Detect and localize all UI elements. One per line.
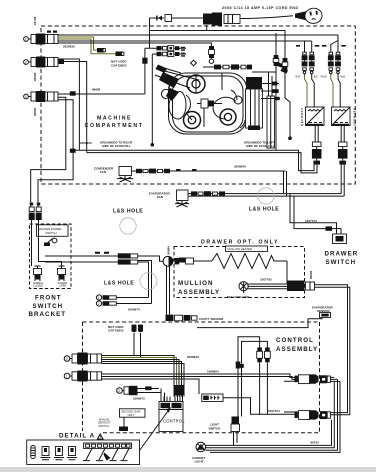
inline connector right leg 1 <box>257 348 263 415</box>
svg-text:CAVITY SENSOR: CAVITY SENSOR <box>199 317 224 321</box>
svg-text:SWITCH: SWITCH <box>209 426 221 430</box>
svg-text:SWITCH: SWITCH <box>326 259 357 266</box>
wire to lower loop 2 <box>138 261 152 304</box>
svg-text:LIGHT: LIGHT <box>195 460 204 464</box>
wire bundle B1 w5 <box>102 364 185 397</box>
svg-text:2058920: 2058920 <box>80 141 92 145</box>
wire heater1 leads down <box>315 126 318 143</box>
mullion feed connector A <box>163 256 179 266</box>
connector lower loop b <box>96 301 116 306</box>
fuse column F3 <box>321 52 334 78</box>
wire bundle B2 w3 thermostat feed <box>102 379 200 394</box>
svg-text:SECOND YEAR: SECOND YEAR <box>122 409 141 413</box>
wire J1 to fuse col2 <box>58 40 312 42</box>
svg-text:SWITCH: SWITCH <box>46 231 57 235</box>
cord wire <box>240 16 293 19</box>
svg-text:W+W: W+W <box>321 76 328 79</box>
plunger switch normal open <box>58 266 69 288</box>
drawer switch S1 <box>333 232 347 244</box>
svg-text:ASSEMBLY: ASSEMBLY <box>178 289 220 296</box>
wire F3 olive drop to heater 2 <box>331 75 333 108</box>
svg-text:66682: 66682 <box>92 88 101 92</box>
svg-text:SWITCH: SWITCH <box>33 303 64 310</box>
svg-text:2: 2 <box>118 389 120 393</box>
svg-text:FAN: FAN <box>100 170 106 174</box>
svg-text:L&S HOLE: L&S HOLE <box>104 281 134 287</box>
svg-text:BRACKET: BRACKET <box>29 311 67 318</box>
svg-text:2008 C/14 18 AMP 5-15P CORD EN: 2008 C/14 18 AMP 5-15P CORD END <box>222 6 298 10</box>
detail switch fig 3 <box>67 447 77 460</box>
wire to lower loop 1 <box>138 262 149 298</box>
svg-text:1: 1 <box>98 296 100 300</box>
detail switch fig 1 <box>41 447 51 460</box>
wire bundle B2 w1 <box>102 374 295 377</box>
svg-text:CAP ENDS: CAP ENDS <box>111 64 126 68</box>
wire bundle B2 w2 <box>102 377 295 382</box>
wire mullion lead left <box>172 258 194 265</box>
wire bundle B1 w4 olive <box>102 362 182 397</box>
not used cap end 2 <box>116 52 125 57</box>
svg-text:2058949: 2058949 <box>187 355 199 359</box>
detail A box <box>27 440 140 465</box>
svg-text:L&S HOLE: L&S HOLE <box>113 209 143 215</box>
wire overload col A <box>252 33 279 150</box>
svg-text:FAN: FAN <box>157 195 163 199</box>
wire upper conn out <box>330 377 340 381</box>
wire J1 olive 1 <box>58 37 97 50</box>
svg-text:L&S HOLE: L&S HOLE <box>249 207 279 213</box>
svg-text:3: 3 <box>25 95 27 99</box>
L&S hole left <box>113 209 143 235</box>
wire F1 top tap <box>304 41 306 52</box>
heater1 connector <box>312 142 322 165</box>
connector J1 <box>24 34 58 45</box>
plunger switch normal closed <box>33 266 44 288</box>
top tick marks <box>296 45 346 47</box>
wire J3 to master switch 2 <box>38 100 73 207</box>
compressor run capacitor <box>246 72 273 130</box>
svg-text:66723: 66723 <box>311 441 320 445</box>
label manual defrost switch <box>98 417 111 427</box>
compressor mounting clip top right <box>276 62 289 74</box>
fuse column F2 <box>309 52 318 78</box>
compressor suction tubes <box>155 65 199 102</box>
heater2 connector <box>338 142 348 165</box>
conn1 top ticks <box>47 31 57 33</box>
wire mullion out 1 <box>315 285 348 413</box>
not used cap ends lower <box>108 325 143 333</box>
detail terminal strip <box>84 443 132 448</box>
light switch S2 <box>231 417 240 446</box>
wire J2 drop 1 <box>58 59 79 150</box>
control pin header <box>174 385 185 402</box>
svg-text:2058940: 2058940 <box>234 165 246 169</box>
connector L1 <box>64 353 101 365</box>
wire L3 into board <box>159 389 165 402</box>
compressor body <box>169 73 248 134</box>
jumper loop inner <box>242 341 268 363</box>
svg-text:1007704: 1007704 <box>305 219 317 223</box>
wire harness row A <box>145 46 186 51</box>
wire condenser fan run <box>132 169 286 174</box>
svg-text:CLOSED: CLOSED <box>33 285 43 288</box>
svg-text:CAP ENDS: CAP ENDS <box>108 328 123 332</box>
mullion heater element R1 <box>194 254 288 269</box>
inline fuse on stub <box>209 46 215 63</box>
wire J1 olive 2 <box>58 39 116 54</box>
svg-text:FRONT: FRONT <box>35 295 62 302</box>
wire bundle B1 w1 <box>102 356 175 397</box>
defrost heater box 2 <box>332 107 351 126</box>
svg-text:B+R: B+R <box>296 76 301 79</box>
wire drawer switch feed 1 <box>290 194 337 234</box>
svg-text:1: 1 <box>25 38 27 42</box>
compressor oval pocket <box>169 92 186 119</box>
wire F1 olive drop to heater 1 <box>305 75 308 108</box>
thermostat cold control <box>202 394 223 402</box>
wire harness row B <box>152 51 186 56</box>
wire thermostat out <box>223 398 295 415</box>
svg-text:SIDE OF FOAM FILL: SIDE OF FOAM FILL <box>246 144 275 148</box>
svg-text:63739: 63739 <box>33 16 37 25</box>
svg-text:2: 2 <box>25 61 27 65</box>
jumper loop outer <box>238 337 260 364</box>
wire bundle B1 w3 <box>102 360 180 397</box>
svg-text:66684: 66684 <box>33 107 37 116</box>
connector L2 <box>64 371 101 382</box>
connector J3 <box>24 91 58 102</box>
fuse column F4 <box>335 52 345 78</box>
svg-text:ASSEMBLY: ASSEMBLY <box>276 346 318 353</box>
mullion assembly dashed box <box>174 247 305 298</box>
svg-text:1006973: 1006973 <box>133 396 145 400</box>
detail pointer line <box>130 408 171 465</box>
master power switch connectors <box>29 203 42 220</box>
fuse column F1 <box>296 52 308 78</box>
svg-text:CONTROL: CONTROL <box>163 419 185 424</box>
wire evap fan run 2 <box>188 195 344 197</box>
svg-text:COMPARTMENT: COMPARTMENT <box>85 123 143 129</box>
wire rail lower to heater1 <box>87 153 317 173</box>
wire bundle B1 w2 olive <box>102 358 177 397</box>
evaporator sensor RT1 <box>320 313 331 318</box>
wire evap sensor <box>197 318 322 328</box>
not used cap end 1 <box>97 48 106 53</box>
svg-text:MULLION LENS: MULLION LENS <box>227 295 250 299</box>
wire lamp line C <box>205 379 337 450</box>
svg-text:DEFROST: DEFROST <box>353 108 357 126</box>
wire heater2 leads to fan rail <box>341 165 344 197</box>
connector middle upper <box>118 253 138 264</box>
wire light switch leg <box>238 368 242 417</box>
wire lower loop 1 <box>117 297 149 299</box>
control board U1 <box>159 397 185 432</box>
jumper blobs left legs <box>236 362 244 369</box>
wire mullion out 2 <box>315 287 350 415</box>
evaporator fan motor M2 <box>175 190 189 207</box>
strain relief <box>203 13 240 31</box>
svg-text:CONTROL: CONTROL <box>276 337 314 344</box>
wire mullion right lead down <box>286 261 288 284</box>
bottom grey strip <box>0 467 376 472</box>
svg-text:SWITCH: SWITCH <box>99 424 109 428</box>
wire J1 to run cap stub <box>58 43 211 46</box>
connector L3 <box>117 386 161 395</box>
connector lower loop a <box>96 295 116 300</box>
wire to mullion connector <box>138 256 163 261</box>
wire bracket upper pair 1 <box>45 255 118 257</box>
wire condenser bend down <box>284 171 287 196</box>
wire heater2 leads down <box>341 126 344 143</box>
svg-text:MACHINE: MACHINE <box>97 116 131 122</box>
svg-text:B+B: B+B <box>340 76 345 79</box>
svg-text:66684: 66684 <box>167 246 171 255</box>
master power switch label box <box>37 225 69 237</box>
detail switch fig 2 <box>54 447 64 460</box>
wire F2 drop to heater 1 <box>312 75 315 108</box>
manual defrost switch <box>119 427 128 432</box>
wire lower loop 2 <box>117 303 152 305</box>
cavity sensor connector <box>166 315 198 321</box>
wire rail to heater1 <box>73 150 314 170</box>
mullion heater label box <box>226 246 268 251</box>
svg-text:2058974: 2058974 <box>128 308 140 312</box>
plug face 5-15P <box>304 7 323 24</box>
wire F3 top fork <box>331 41 338 53</box>
wire cord to strain relief <box>172 17 204 19</box>
wire J3 to master switch 1 <box>31 97 66 207</box>
detail capsule <box>31 446 35 459</box>
wire evap fan run 1 <box>188 191 341 196</box>
compressor small circle <box>234 96 242 104</box>
svg-text:66684: 66684 <box>33 72 37 81</box>
compressor ground wire <box>151 54 155 147</box>
machine compartment dashed border <box>41 26 355 184</box>
control assembly dashed box <box>83 322 320 433</box>
svg-text:1007754: 1007754 <box>268 409 280 413</box>
svg-text:DRAWER: DRAWER <box>325 251 359 258</box>
node diamond <box>191 60 197 66</box>
compressor bottom-left mount circle <box>184 112 201 129</box>
svg-text:ONLY: ONLY <box>128 413 135 417</box>
svg-text:DRAWER OPT. ONLY: DRAWER OPT. ONLY <box>201 240 278 246</box>
wire protector col B to ground <box>282 42 292 140</box>
mullion output connector <box>287 281 315 292</box>
svg-text:MULLION: MULLION <box>178 280 214 287</box>
wire F4 drop to heater 2 <box>338 75 340 108</box>
compressor side taps <box>261 82 280 101</box>
svg-text:3: 3 <box>66 357 68 361</box>
wire lamp line A <box>206 420 332 446</box>
detail levers <box>83 448 129 460</box>
wire to defrost switch <box>123 417 125 426</box>
label ticks upper pair <box>95 252 109 254</box>
compressor center valve <box>197 99 222 108</box>
L&S hole right <box>249 188 279 213</box>
svg-text:SIDE OF FOAM PILL: SIDE OF FOAM PILL <box>102 144 131 148</box>
cabinet light lamp <box>196 442 206 452</box>
wire cap ends drop <box>134 333 141 358</box>
plug wedge <box>295 11 306 20</box>
svg-text:66684: 66684 <box>309 270 313 279</box>
svg-text:OPEN: OPEN <box>60 285 67 288</box>
defrost heater box 1 <box>306 107 325 126</box>
grommet <box>239 282 248 291</box>
wire drawer switch feed 2 <box>294 196 341 234</box>
wire J3 compressor feed <box>58 48 148 96</box>
wire J2 drop 2 <box>64 62 87 153</box>
svg-text:1007793: 1007793 <box>260 278 272 282</box>
wire lamp line B <box>206 381 335 447</box>
switch icon <box>44 238 57 246</box>
svg-text:DETAIL A: DETAIL A <box>59 433 95 440</box>
svg-text:2020832: 2020832 <box>63 45 75 49</box>
wire cavity sensor feed <box>167 266 170 315</box>
wire cord drop <box>150 18 156 48</box>
wire F4 top <box>337 35 339 52</box>
L&S hole middle <box>104 273 157 290</box>
svg-text:1: 1 <box>66 375 68 379</box>
wire cord neutral rail <box>150 31 286 43</box>
compressor right mount circle <box>220 109 236 125</box>
svg-text:DEFROST: DEFROST <box>300 108 304 126</box>
compressor top-left mount circle <box>187 75 205 93</box>
condenser fan motor M1 <box>117 167 133 183</box>
svg-text:1006854: 1006854 <box>207 369 219 373</box>
compressor interior details <box>169 74 245 129</box>
wire bracket upper pair 2 <box>45 261 118 263</box>
wire to plunger switches <box>32 220 62 266</box>
ground reference symbol <box>155 15 172 22</box>
wire lamp line D <box>210 381 340 452</box>
front switch bracket dashed box <box>30 224 72 289</box>
compressor drier tube <box>267 96 275 148</box>
wire F2 top <box>311 41 313 52</box>
lower output connector <box>295 410 331 419</box>
compressor terminal row <box>203 64 252 69</box>
inline connector right leg 2 <box>265 348 271 415</box>
upper output connector <box>295 374 331 383</box>
warning triangle <box>97 434 103 439</box>
second year only box <box>120 409 146 417</box>
wire J1 bus top <box>58 34 338 36</box>
svg-text:B/C: B/C <box>314 76 318 79</box>
wire grommet bundle <box>244 284 288 293</box>
svg-text:2: 2 <box>98 302 100 306</box>
connector J2 <box>24 57 64 68</box>
rail left junction blob <box>70 149 76 153</box>
svg-text:MULLION HEATER: MULLION HEATER <box>228 247 252 251</box>
